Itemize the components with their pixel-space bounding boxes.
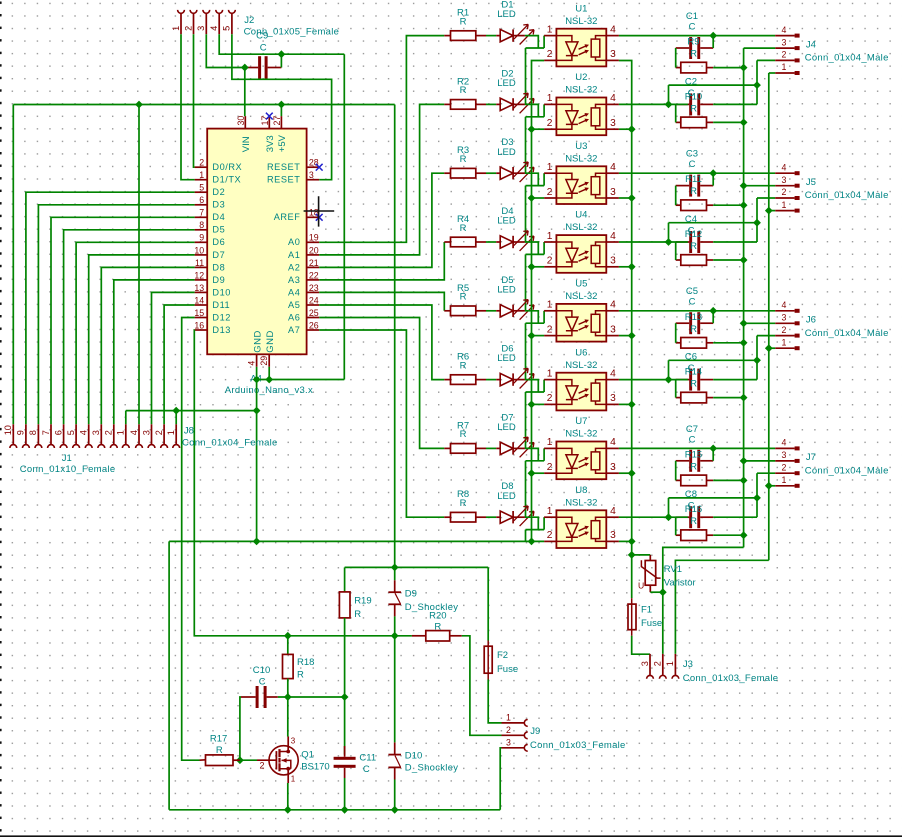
svg-text:2: 2 [782,462,787,472]
U5 internal arrows [579,321,587,325]
svg-text:U3: U3 [575,141,587,152]
svg-text:2: 2 [547,187,553,198]
junction +5V at R19/F2 row [391,564,399,572]
svg-text:10: 10 [3,425,13,435]
svg-text:R19: R19 [354,595,371,606]
pin 24 A5 [307,304,320,306]
svg-text:3: 3 [610,256,616,267]
J7 pin 2 [775,472,794,474]
svg-text:4: 4 [610,93,616,104]
U7 pin 3 [606,472,619,474]
svg-text:6: 6 [53,430,63,435]
wire D4 to U4 pin1 [525,242,538,254]
svg-text:1: 1 [665,661,675,666]
J3 pin 1 [674,654,676,676]
wire F2 top [487,567,489,640]
junction U3.2 [528,194,536,202]
U2 pin 1 [544,103,556,105]
svg-text:NSL-32: NSL-32 [565,222,597,233]
J7 pin 1 [775,485,794,487]
wire J4.3 from chain [744,47,776,49]
wire C10 left to gate node [240,697,241,760]
wire C3 right riser [712,173,714,185]
fuse F1 [628,604,636,630]
J7 pin 3 [775,460,794,462]
junction J8.1 [172,407,180,415]
wire D7 to U7 pin1 [525,448,538,460]
wire J4.1 from chain [769,72,775,74]
wire J2.4 to GND rail (y54) [219,34,344,54]
J8 pin 4 [138,424,140,444]
svg-text:J1: J1 [62,453,72,464]
junction C9 right [278,50,286,58]
wire U7.4 row to J7.4 [619,447,775,449]
wire C1 right riser [712,36,714,48]
U3 pin 4 [606,172,619,174]
wire A4 to R5 [319,292,444,310]
U7 internal photoresistor [596,448,607,473]
wire jog drop [668,360,670,379]
wire R11 right to pin3 chain [713,204,743,206]
capacitor C11 [334,757,356,760]
wire pin3 chain vertical [743,48,745,547]
svg-text:1: 1 [547,437,553,448]
resistor R3 [444,172,450,174]
wire Q1 drain up [287,697,289,737]
svg-text:D9: D9 [212,275,225,285]
wire R16 right to pin3 chain [713,534,743,536]
junction U7.3 [628,469,636,477]
svg-text:1: 1 [199,170,204,180]
pin 4 GND [256,354,258,367]
wire C2/R10 left join [675,104,677,122]
wire D12 to R17 [182,318,200,761]
svg-text:Conn_01x10_Female: Conn_01x10_Female [20,464,116,475]
wire C5/R13 left join [675,323,677,343]
diode D10 D_Shockley [388,754,401,756]
svg-text:3: 3 [309,170,314,180]
J3 pin 2 [662,654,664,676]
wire J7.2 drop [756,473,758,498]
wire jog drop [668,498,670,517]
wire U5.3 stub [619,335,632,337]
svg-text:29: 29 [259,356,269,366]
wire jog drop [668,85,670,104]
U8 pin 3 [606,540,619,542]
pin 18 AREF [307,216,320,218]
svg-text:C: C [363,764,370,775]
svg-text:3: 3 [610,187,616,198]
svg-text:1: 1 [782,337,787,347]
pin 9 D6 [195,241,208,243]
wire GND J1.1/J8.1 horizontal [126,410,257,412]
svg-text:RESET: RESET [267,175,300,185]
wire U2.4 row [619,103,688,105]
svg-text:AREF: AREF [274,212,301,222]
svg-text:R: R [434,622,441,633]
junction R16 on chain [740,531,748,539]
U3 internal LED [556,173,578,198]
svg-text:R: R [690,49,697,60]
svg-text:R18: R18 [297,657,314,668]
J1 pin 3 [100,424,102,444]
resistor R8 [444,516,450,518]
svg-text:R: R [216,745,223,756]
opto U6 NSL-32 body [556,373,606,411]
svg-text:1: 1 [171,26,181,31]
svg-text:2: 2 [782,325,787,335]
wire U6.2 stub [532,403,545,405]
wire A6 to R7 [319,318,444,449]
wire D3 to U3 pin1 [525,173,538,185]
U7 internal LED [556,448,578,473]
svg-text:U7: U7 [575,416,587,427]
wire J1 fan [76,242,195,424]
wire U5.2 stub [532,335,545,337]
svg-text:BS170: BS170 [301,761,330,772]
svg-text:3: 3 [782,175,787,185]
svg-text:D8: D8 [212,262,225,272]
svg-text:F2: F2 [497,650,508,661]
wire D10 top segment [394,636,396,743]
pin 10 D7 [195,254,208,256]
svg-text:1: 1 [291,775,296,784]
junction U2.2 [528,125,536,133]
svg-text:D6: D6 [212,237,225,247]
svg-text:VIN: VIN [241,136,252,152]
wire RV1 top stub [632,554,651,556]
U8 pin 1 [544,516,556,518]
U4 internal arrows [579,252,587,256]
wire +5V pin27 drop [280,105,282,117]
svg-text:R: R [690,186,697,197]
wire jog horizontal [669,84,758,86]
svg-text:4: 4 [610,24,616,35]
capacitor C4 [689,231,692,253]
J8 pin 1 [175,424,177,444]
pin 14 D11 [195,304,208,306]
junction R19/C11 at gate row [341,693,349,701]
J3 pin 3 [649,654,651,676]
svg-text:14: 14 [194,295,204,305]
wire U2.2 stub [532,128,545,130]
wire J2.1 to D1/TX [181,34,195,180]
svg-text:R13: R13 [685,312,702,323]
junction U5.3 [628,332,636,340]
wire J1 fan [101,267,194,424]
wire +5V row to R19 and F2 [345,566,489,568]
svg-text:A0: A0 [288,237,300,247]
svg-text:C: C [689,297,696,308]
U1 pin 3 [606,59,619,61]
wire gate row C10-R18-C11 [278,696,345,698]
svg-text:LED: LED [497,491,516,502]
J2 pin 2 [190,10,197,13]
capacitor C6 [689,369,692,391]
svg-text:U6: U6 [575,347,587,358]
svg-text:4: 4 [782,25,787,35]
wire D1 to U1 pin1 [525,36,538,48]
wire +5V rail [13,104,394,106]
wire A2 to R3 [319,173,444,267]
svg-text:20: 20 [309,245,319,255]
wire C6/R14 left join [675,380,677,398]
U4 internal LED [556,242,578,267]
J5 pin 4 [775,172,794,174]
U6 pin 1 [544,379,556,381]
svg-text:1: 1 [547,162,553,173]
svg-text:9: 9 [16,430,26,435]
J2 pin 3 [203,10,210,13]
wire C4/R12 left join [675,242,677,260]
J1 pin 4 [88,424,90,444]
svg-text:2: 2 [782,50,787,60]
U3 pin 1 [544,172,556,174]
junction J6.3 [740,319,748,327]
resistor R17 [200,759,206,761]
svg-text:C: C [689,159,696,170]
pin 28 RESET [307,166,320,168]
U6 internal LED [556,380,578,405]
J9 pin 1 [502,722,525,724]
wire R18 top [287,636,289,655]
wire jog horizontal [669,222,758,224]
resistor R9 [676,67,681,69]
svg-text:R: R [690,461,697,472]
svg-text:R: R [354,609,361,620]
junction U6.2 [528,401,536,409]
svg-text:U2: U2 [575,72,587,83]
svg-text:1: 1 [547,24,553,35]
svg-text:4: 4 [129,430,139,435]
svg-text:13: 13 [194,283,204,293]
wire R14 right to pin3 chain [713,397,743,399]
wire A1 to R2 [319,104,444,255]
wire J5.2 drop [756,198,758,223]
svg-text:C1: C1 [686,11,698,22]
resistor R12 [676,259,681,261]
U1 internal photoresistor [596,36,607,61]
pin 19 A0 [307,241,320,243]
wire GND rail y541 [169,540,544,542]
junction U4.3 [628,263,636,271]
wire R19 top [344,567,346,592]
wire U1.4 row to J4.4 [619,35,775,37]
svg-text:J8: J8 [184,426,194,437]
svg-text:1: 1 [782,475,787,485]
U1 pin 1 [544,35,556,37]
wire U8.3 stub on rail [619,540,632,542]
U4 pin 1 [544,241,556,243]
wire R9 right to pin3 chain [713,67,743,69]
svg-text:D12: D12 [212,312,231,322]
svg-text:2: 2 [547,462,553,473]
svg-text:C3: C3 [686,149,698,160]
J5 pin 3 [775,185,794,187]
wire C7/R15 left join [675,461,677,481]
svg-text:D3: D3 [212,200,225,210]
junction R10 on chain [740,119,748,127]
J4 pin 4 [775,35,794,37]
svg-text:16: 16 [194,320,204,330]
capacitor C5 [689,312,692,334]
svg-text:J4: J4 [806,39,816,50]
pin 5 D2 [195,191,208,193]
svg-text:10: 10 [194,245,204,255]
svg-text:D10: D10 [212,287,231,297]
svg-text:2: 2 [547,393,553,404]
resistor R14 [676,397,681,399]
svg-text:+5V: +5V [277,134,288,152]
svg-text:Fuse: Fuse [497,664,518,675]
svg-text:2: 2 [199,158,204,168]
svg-text:4: 4 [79,430,89,435]
svg-text:12: 12 [194,270,204,280]
junction R9 on chain [740,64,748,72]
svg-text:3: 3 [782,37,787,47]
svg-text:NSL-32: NSL-32 [565,16,597,27]
wire pin1 chain to J3.1 [675,560,768,654]
svg-text:3: 3 [506,738,511,748]
svg-text:U: U [638,580,644,590]
wire +5V down x394.7 [394,105,396,568]
J1 pin 1 [125,424,127,444]
svg-text:R: R [690,379,697,390]
svg-text:A5: A5 [288,300,300,310]
junction jog [753,81,761,89]
svg-text:3: 3 [610,530,616,541]
junction R11 on chain [740,201,748,209]
resistor R16 [676,534,681,536]
pin 17 3V3 [268,116,270,129]
svg-text:C: C [259,676,266,687]
wire C2 right to jog [713,103,757,105]
wire gate node to Q1 [240,759,257,761]
J1 pin 9 [25,424,27,444]
U7 pin 1 [544,447,556,449]
U3 internal arrows [579,183,587,187]
transistor Q1 BS170 [269,746,298,775]
wire D13 to mid rail [194,330,412,636]
svg-text:NSL-32: NSL-32 [565,429,597,440]
pin 2 D0/RX [195,166,208,168]
J5 pin 2 [775,197,794,199]
svg-text:LED: LED [497,216,516,227]
svg-text:D1/TX: D1/TX [212,175,241,185]
svg-text:C11: C11 [359,753,376,764]
svg-text:C9: C9 [256,31,268,42]
wire Q1 source down [287,783,289,810]
svg-text:D13: D13 [212,325,231,335]
U5 internal photoresistor [596,311,607,336]
LED D4 [496,241,500,243]
svg-text:R10: R10 [685,91,702,102]
svg-text:1: 1 [547,231,553,242]
J1 pin 10 [12,424,14,444]
U8 internal LED [556,517,578,541]
wire D8 to U8 pin1 [525,517,538,529]
svg-text:D_Shockley: D_Shockley [405,763,459,774]
wire J1.1 riser [125,411,127,425]
wire J5.1 stub [769,210,775,212]
U6 pin 2 [544,403,556,405]
svg-text:F1: F1 [641,605,652,616]
svg-text:1: 1 [547,93,553,104]
wire J9.3 to GND bottom rail [500,748,501,810]
wire U3.2 stub [532,197,545,199]
U6 pin 3 [606,403,619,405]
svg-text:2: 2 [653,661,663,666]
wire J8.1 riser [175,411,177,425]
wire R10 right to pin3 chain [713,121,743,123]
varistor RV1 [649,555,651,561]
wire C11 bottom [344,778,346,810]
junction D10 on rail [391,806,399,814]
resistor R11 [676,204,681,206]
svg-text:J3: J3 [683,659,693,670]
svg-text:J5: J5 [806,177,816,188]
junction C5 right branch [709,307,717,315]
junction varistor bottom [659,588,667,596]
resistor R10 [676,121,681,123]
svg-text:2: 2 [260,761,265,771]
svg-text:LED: LED [497,284,516,295]
svg-text:2: 2 [506,725,511,735]
wire U6.4 row [619,379,688,381]
junction drain node [284,693,292,701]
svg-text:U8: U8 [575,485,587,496]
wire channel chain down [525,254,527,310]
svg-text:4: 4 [610,437,616,448]
wire J1 fan [38,205,194,424]
svg-text:2: 2 [547,530,553,541]
U3 pin 3 [606,197,619,199]
svg-text:R: R [460,498,467,509]
LED D1 [496,35,500,37]
junction C11 on rail [341,806,349,814]
svg-text:LED: LED [497,147,516,158]
wire R19 bottom to C11 [344,618,346,755]
svg-text:1: 1 [547,300,553,311]
U5 pin 4 [606,310,619,312]
svg-text:Conn_01x04_Male: Conn_01x04_Male [805,53,889,64]
svg-text:3: 3 [610,393,616,404]
svg-text:5: 5 [66,430,76,435]
svg-text:GND: GND [265,330,276,353]
svg-text:D9: D9 [405,588,417,599]
svg-text:A4: A4 [288,287,300,297]
wire GND rail left drop [168,541,170,809]
junction U8.3 chain at rail [628,538,636,546]
J1 pin 6 [63,424,65,444]
svg-text:3: 3 [91,430,101,435]
svg-text:C10: C10 [253,665,270,676]
junction U5.2 [528,332,536,340]
U8 internal photoresistor [596,517,607,541]
junction Q1 source on rail [284,806,292,814]
svg-text:R20: R20 [429,611,446,622]
svg-text:Q1: Q1 [301,749,314,760]
resistor R13 [676,342,681,344]
svg-text:R: R [460,429,467,440]
svg-text:D2: D2 [212,187,225,197]
wire J6.3 stub [744,322,776,324]
LED D2 [496,103,500,105]
svg-text:R: R [690,103,697,114]
wire J8.3 to D10 [152,292,195,424]
svg-text:R: R [460,16,467,27]
U7 pin 2 [544,472,556,474]
